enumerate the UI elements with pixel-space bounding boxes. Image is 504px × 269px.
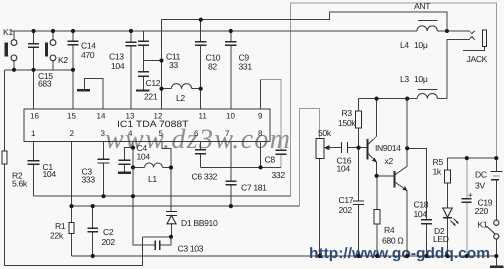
svg-text:10: 10 [226,112,235,121]
svg-text:1k: 1k [433,167,442,177]
svg-text:10μ: 10μ [414,40,428,50]
svg-text:104: 104 [111,61,125,71]
svg-text:221: 221 [144,92,158,102]
svg-text:104: 104 [137,152,151,162]
svg-text:C12: C12 [146,78,161,88]
svg-text:x2: x2 [385,156,394,166]
svg-text:104: 104 [43,169,57,179]
svg-text:150k: 150k [338,118,356,128]
svg-text:C13: C13 [109,52,124,62]
svg-text:82: 82 [208,62,217,72]
svg-text:L1: L1 [148,174,157,184]
svg-text:33: 33 [169,60,178,70]
svg-text:680 Ω: 680 Ω [382,236,404,246]
svg-text:13: 13 [126,112,135,121]
svg-text:5: 5 [159,129,164,138]
svg-text:12: 12 [154,112,163,121]
svg-text:5.6k: 5.6k [12,179,28,189]
svg-text:16: 16 [30,112,39,121]
svg-text:4: 4 [128,129,133,138]
svg-text:L2: L2 [176,93,185,103]
svg-text:C8: C8 [265,155,276,165]
svg-text:L4: L4 [400,40,409,50]
svg-text:R4: R4 [384,225,395,235]
svg-text:LED: LED [433,234,449,244]
svg-text:DC: DC [475,169,487,179]
svg-text:331: 331 [239,62,253,72]
svg-text:R3: R3 [342,108,353,118]
svg-text:JACK: JACK [467,54,488,64]
svg-text:470: 470 [81,50,95,60]
svg-text:IC1 TDA 7088T: IC1 TDA 7088T [117,119,189,129]
svg-text:3V: 3V [475,180,485,190]
svg-text:8: 8 [258,129,263,138]
svg-text:104: 104 [414,209,428,219]
svg-text:1: 1 [31,129,36,138]
svg-text:R1: R1 [55,221,66,231]
svg-text:14: 14 [97,112,106,121]
svg-text:+: + [468,190,473,200]
svg-text:11: 11 [199,112,208,121]
svg-text:2: 2 [70,129,75,138]
svg-text:C17: C17 [339,195,354,205]
svg-text:L3: L3 [400,74,409,84]
svg-text:15: 15 [67,112,76,121]
svg-text:6: 6 [194,129,199,138]
svg-text:http://www.go-gddq.com: http://www.go-gddq.com [309,245,490,262]
svg-text:9: 9 [258,112,263,121]
svg-text:C14: C14 [81,41,96,51]
svg-text:C3 103: C3 103 [178,244,204,254]
svg-text:K1: K1 [3,27,13,37]
svg-text:202: 202 [102,237,116,247]
svg-text:7: 7 [225,129,230,138]
svg-text:D1 BB910: D1 BB910 [181,218,218,228]
svg-text:50k: 50k [318,128,332,138]
svg-text:K2: K2 [58,55,68,65]
svg-text:22k: 22k [50,231,64,241]
svg-text:3: 3 [101,129,106,138]
svg-text:C18: C18 [414,200,429,210]
svg-text:C2: C2 [103,227,114,237]
svg-text:R5: R5 [433,157,444,167]
svg-text:333: 333 [82,175,96,185]
svg-text:C6 332: C6 332 [192,172,218,182]
svg-text:C7 181: C7 181 [241,183,267,193]
svg-text:104: 104 [337,164,351,174]
svg-text:ANT: ANT [414,1,431,11]
svg-text:IN9014: IN9014 [375,143,401,153]
svg-text:10μ: 10μ [414,74,428,84]
svg-text:220: 220 [475,206,489,216]
svg-text:332: 332 [272,170,286,180]
svg-text:683: 683 [38,79,52,89]
svg-text:K1: K1 [478,220,488,230]
svg-text:202: 202 [339,205,353,215]
